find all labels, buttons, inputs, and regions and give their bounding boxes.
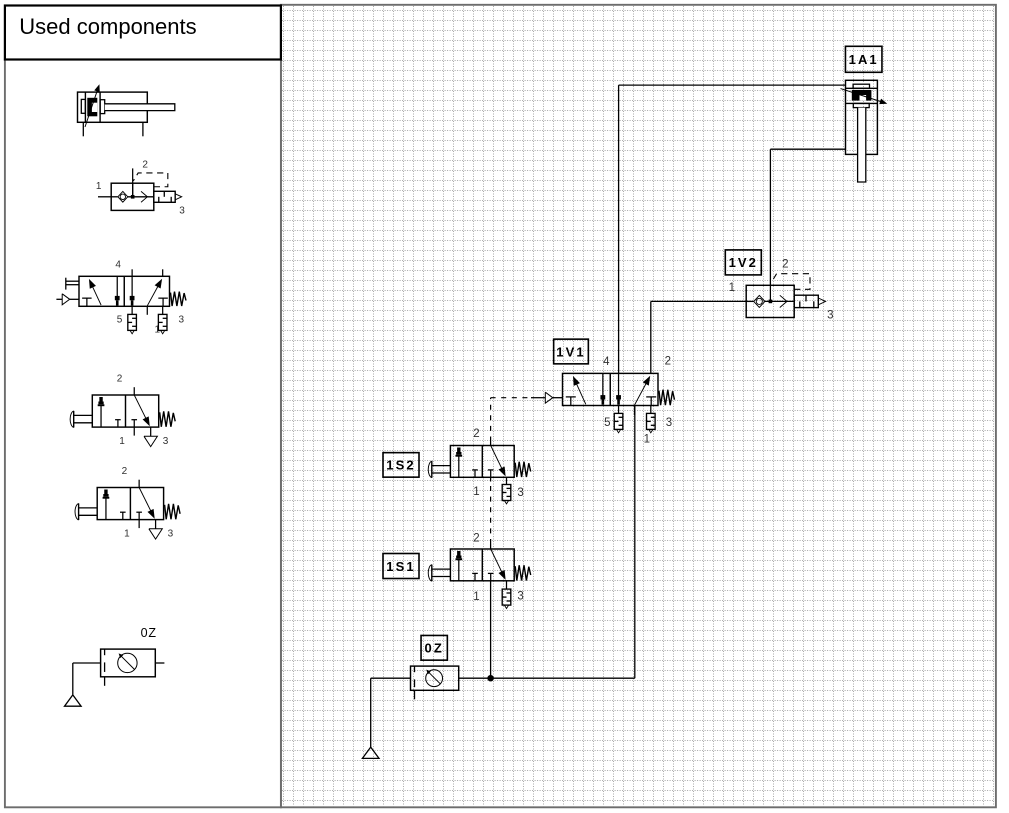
svg-text:3: 3 bbox=[179, 315, 185, 326]
svg-text:1A1: 1A1 bbox=[849, 52, 879, 67]
svg-text:1: 1 bbox=[473, 486, 479, 498]
svg-text:5: 5 bbox=[604, 417, 610, 429]
svg-text:5: 5 bbox=[117, 315, 123, 326]
svg-text:2: 2 bbox=[122, 466, 128, 477]
svg-text:1S2: 1S2 bbox=[386, 458, 415, 473]
svg-text:1: 1 bbox=[124, 529, 130, 540]
svg-text:3: 3 bbox=[517, 487, 523, 499]
svg-text:1: 1 bbox=[96, 181, 102, 192]
svg-text:2: 2 bbox=[473, 428, 479, 440]
svg-text:2: 2 bbox=[665, 356, 671, 368]
svg-text:3: 3 bbox=[827, 310, 833, 322]
svg-text:1: 1 bbox=[473, 591, 479, 603]
svg-text:3: 3 bbox=[163, 436, 169, 447]
svg-text:1: 1 bbox=[155, 325, 161, 336]
svg-text:0Z: 0Z bbox=[425, 641, 444, 656]
svg-text:1S1: 1S1 bbox=[386, 559, 415, 574]
svg-text:1: 1 bbox=[119, 436, 125, 447]
svg-text:2: 2 bbox=[142, 160, 148, 171]
svg-text:3: 3 bbox=[168, 529, 174, 540]
svg-text:3: 3 bbox=[517, 591, 523, 603]
svg-text:2: 2 bbox=[117, 374, 123, 385]
svg-text:1V1: 1V1 bbox=[556, 344, 585, 359]
svg-text:4: 4 bbox=[115, 260, 121, 271]
svg-text:Used components: Used components bbox=[19, 14, 196, 39]
svg-text:4: 4 bbox=[603, 356, 610, 368]
svg-text:0Z: 0Z bbox=[141, 626, 157, 640]
svg-text:2: 2 bbox=[473, 533, 479, 545]
svg-text:1: 1 bbox=[644, 433, 650, 445]
svg-text:3: 3 bbox=[666, 417, 672, 429]
svg-text:2: 2 bbox=[782, 258, 788, 270]
svg-text:1: 1 bbox=[729, 282, 735, 294]
svg-text:3: 3 bbox=[179, 206, 185, 217]
svg-text:1V2: 1V2 bbox=[729, 255, 758, 270]
